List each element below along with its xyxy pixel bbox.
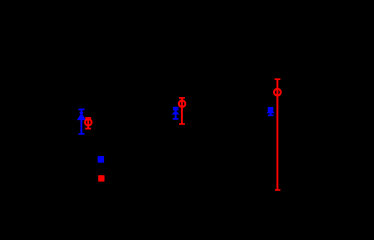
red errorbar point 2 (open circle marker, x~182) [179,98,186,124]
red errorbar point 1 (open circle marker, x~88) [85,118,92,129]
legend blue square [98,156,104,163]
blue errorbar point 2 (triangle marker, x~176) [172,107,180,119]
blue errorbar point 1 (triangle marker, x~81) [77,109,86,135]
red errorbar point 3 (open circle marker, long bar, x~277) [274,79,281,190]
legend red square [98,175,104,181]
blue errorbar point 3 (triangle marker, x~271) [267,107,275,116]
